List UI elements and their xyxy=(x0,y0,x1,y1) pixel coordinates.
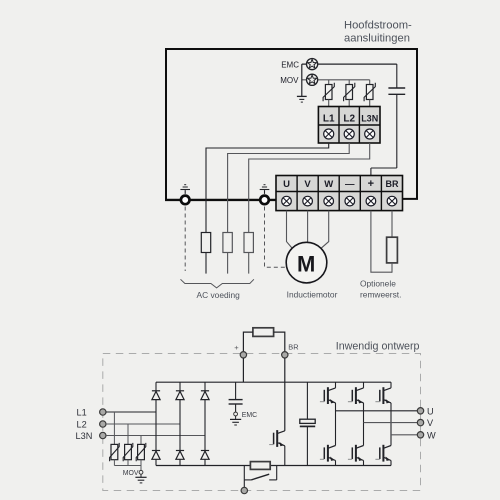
wire BR terminal to brake resistor xyxy=(391,211,393,238)
wire V phase output xyxy=(364,422,418,424)
terminal L1 screw xyxy=(324,129,334,139)
varistor RV1 (input MOV) xyxy=(323,80,334,107)
diode D6 (lower) xyxy=(201,451,209,460)
wire L3 feed to fuse xyxy=(249,143,370,233)
wire rectifier leg 3 xyxy=(204,382,206,465)
svg-text:remweerst.: remweerst. xyxy=(360,290,401,300)
node U output xyxy=(417,408,423,414)
varistor RV5 (internal MOV) xyxy=(123,443,133,466)
wire R2 right lead to BR node xyxy=(274,332,285,351)
svg-text:aansluitingen: aansluitingen xyxy=(344,33,410,45)
varistor RV2 (input MOV) xyxy=(344,80,355,107)
terminal L3N screw xyxy=(365,129,375,139)
svg-text:BR: BR xyxy=(288,343,298,352)
ground EMC cap xyxy=(230,412,241,425)
wire DC- rail xyxy=(156,465,391,467)
resistor R1 (optional brake resistor) xyxy=(387,237,398,263)
wire W to motor xyxy=(321,211,329,249)
wire L1 to MOV1 xyxy=(113,412,115,444)
transistor Q1 (inverter upper IGBT) xyxy=(320,382,336,445)
label L3N terminal xyxy=(361,114,378,124)
svg-text:+: + xyxy=(368,178,374,190)
varistor RV3 (input MOV) xyxy=(364,80,375,107)
terminal block TB2 (U V W - + BR) xyxy=(276,176,403,212)
wire chopper emitter to DC- rail xyxy=(284,446,286,466)
svg-text:V: V xyxy=(427,418,434,428)
transistor Q6 (inverter lower IGBT) xyxy=(375,445,391,466)
ground MOV xyxy=(135,466,146,483)
svg-text:Inwendig ontwerp: Inwendig ontwerp xyxy=(336,341,420,353)
label W output xyxy=(427,430,436,440)
fuse F3 xyxy=(244,233,253,253)
wire fuse F2 to supply xyxy=(227,253,229,274)
transistor Q7 (brake chopper IGBT) xyxy=(269,430,285,447)
svg-text:Hoofdstroom-: Hoofdstroom- xyxy=(344,20,412,32)
svg-text:L3N: L3N xyxy=(361,114,378,124)
wire + terminal to brake resistor xyxy=(371,211,392,273)
diode D4 (lower) xyxy=(152,451,160,460)
svg-text:EMC: EMC xyxy=(281,60,299,69)
svg-text:L3N: L3N xyxy=(76,431,93,441)
screw terminal MOV xyxy=(307,74,318,85)
wire V to motor xyxy=(307,211,309,243)
svg-text:Inductiemotor: Inductiemotor xyxy=(287,289,338,299)
terminal BR screw xyxy=(387,196,397,206)
wire rectifier leg 1 xyxy=(155,382,157,465)
terminal V screw xyxy=(303,196,313,206)
PE ground terminal right xyxy=(260,185,270,205)
svg-text:—: — xyxy=(345,179,355,190)
wire MOV line xyxy=(302,79,370,81)
drive enclosure box xyxy=(166,49,417,200)
label EMC internal xyxy=(242,412,257,419)
terminal block TB1 (L1 L2 L3N) xyxy=(318,107,380,144)
label V output xyxy=(427,418,434,428)
label BR node xyxy=(288,343,298,352)
wire L1 feed to fuse xyxy=(206,143,329,233)
svg-text:MOV: MOV xyxy=(280,76,299,85)
svg-text:Optionele: Optionele xyxy=(360,278,396,288)
svg-text:EMC: EMC xyxy=(242,412,257,419)
wire EMC line xyxy=(302,63,397,65)
diode D1 (upper) xyxy=(152,391,160,400)
wire MOV bus xyxy=(114,465,141,467)
label MOV xyxy=(280,76,299,85)
resistor R3 (inrush shunt on DC- rail) xyxy=(250,462,270,470)
label Optionele remweerst. xyxy=(360,278,401,299)
capacitor C3 (DC bus electrolytic) xyxy=(300,382,315,465)
svg-text:L2: L2 xyxy=(77,420,87,430)
motor M1 (induction motor) xyxy=(286,242,327,283)
varistor RV4 (internal MOV) xyxy=(110,443,120,466)
wire W phase output xyxy=(391,434,417,436)
label EMC xyxy=(281,60,299,69)
label W terminal xyxy=(324,179,333,190)
svg-text:W: W xyxy=(324,179,333,190)
label L1 input xyxy=(77,408,87,418)
title text Hoofdstroom-aansluitingen xyxy=(344,20,412,45)
ground for EMC/MOV screws xyxy=(297,96,307,102)
label MOV internal xyxy=(123,470,139,477)
dashed lead right PE to motor xyxy=(265,207,286,268)
resistor R2 (brake resistor external link) xyxy=(253,328,274,337)
node BR xyxy=(282,352,288,358)
transistor Q4 (inverter lower IGBT) xyxy=(320,445,336,466)
label &#8212; terminal xyxy=(345,179,355,190)
bracket AC voeding group xyxy=(181,279,254,288)
svg-text:U: U xyxy=(427,406,434,416)
node L3N xyxy=(100,432,106,438)
wire L3N to rectifier xyxy=(106,435,205,437)
label U output xyxy=(427,406,434,416)
wire cap to + terminal xyxy=(371,168,397,176)
wire + node to DC+ rail xyxy=(242,358,244,382)
wire L2 to rectifier xyxy=(106,423,180,425)
node W output xyxy=(417,432,423,438)
fuse F1 xyxy=(201,233,210,253)
screw terminal EMC xyxy=(307,59,318,70)
svg-text:M: M xyxy=(297,251,315,276)
wire L1 to rectifier xyxy=(106,411,156,413)
svg-text:L1: L1 xyxy=(323,114,335,125)
diode D3 (upper) xyxy=(201,391,209,400)
node DC minus bottom xyxy=(241,487,247,493)
terminal minus screw xyxy=(345,196,355,206)
label + node xyxy=(234,343,239,352)
label L2 input xyxy=(77,420,87,430)
wire DC+ rail xyxy=(156,381,391,383)
svg-text:+: + xyxy=(234,343,239,352)
wire fuse F3 to supply xyxy=(248,253,250,274)
wire L2 to MOV2 xyxy=(127,424,129,444)
svg-text:L1: L1 xyxy=(77,408,87,418)
dashed lead left PE xyxy=(184,207,186,272)
terminal U screw xyxy=(282,196,292,206)
transistor Q3 (inverter upper IGBT) xyxy=(375,382,391,445)
PE ground terminal left xyxy=(180,185,190,205)
wire to bottom node xyxy=(243,480,245,488)
wire L2 feed to fuse xyxy=(228,143,350,233)
wire fuse F1 to supply xyxy=(205,253,207,274)
node plus DC bus xyxy=(240,352,246,358)
wire R2 left lead to + node xyxy=(243,332,253,351)
fuse F2 xyxy=(223,233,232,253)
svg-text:BR: BR xyxy=(386,179,399,189)
svg-text:MOV: MOV xyxy=(123,470,139,477)
wire brake resistor bottom xyxy=(391,263,393,273)
node V output xyxy=(417,419,423,425)
label BR terminal xyxy=(386,179,399,189)
wire U phase output xyxy=(336,410,418,412)
terminal W screw xyxy=(324,196,334,206)
label + terminal xyxy=(368,178,374,190)
svg-text:L2: L2 xyxy=(343,114,355,125)
node L1 xyxy=(100,409,106,415)
terminal plus screw xyxy=(366,196,376,206)
switch S1 (inrush bypass relay) xyxy=(244,466,276,480)
svg-text:V: V xyxy=(304,179,311,190)
label U terminal xyxy=(283,179,290,190)
transistor Q2 (inverter upper IGBT) xyxy=(348,382,364,445)
terminal L2 screw xyxy=(344,129,354,139)
svg-text:AC voeding: AC voeding xyxy=(197,290,241,300)
varistor RV6 (internal MOV) xyxy=(136,443,146,466)
wire rectifier leg 2 xyxy=(179,382,181,465)
wire BR node to chopper xyxy=(284,358,286,431)
wire L3N to MOV3 xyxy=(140,436,142,445)
svg-text:W: W xyxy=(427,430,436,440)
diode D2 (upper) xyxy=(176,391,184,400)
diode D5 (lower) xyxy=(176,451,184,460)
label L1 terminal xyxy=(323,114,335,125)
node L2 xyxy=(100,421,106,427)
wire U to motor xyxy=(287,211,293,249)
label AC voeding xyxy=(197,290,241,300)
capacitor C2 (EMC Y-cap) xyxy=(229,382,243,412)
title text Inwendig ontwerp xyxy=(336,341,420,353)
label L2 terminal xyxy=(343,114,355,125)
label V terminal xyxy=(304,179,311,190)
capacitor C1 (EMC filter cap) xyxy=(388,64,405,168)
label Inductiemotor xyxy=(287,289,338,299)
svg-text:U: U xyxy=(283,179,290,190)
transistor Q5 (inverter lower IGBT) xyxy=(348,445,364,466)
label L3N input xyxy=(76,431,93,441)
dashed internal-design boundary box xyxy=(103,354,421,491)
wire bold bottom PE bus xyxy=(165,199,276,201)
wire EMC-MOV vertical xyxy=(301,64,303,96)
